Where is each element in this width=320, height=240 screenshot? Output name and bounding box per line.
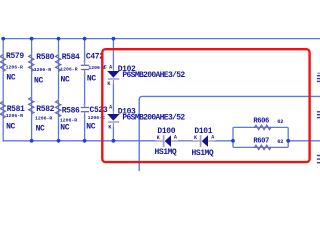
svg-text:C: C xyxy=(104,64,107,70)
svg-text:HS1MQ: HS1MQ xyxy=(192,149,214,158)
svg-text:NC: NC xyxy=(87,74,96,83)
svg-text:K: K xyxy=(157,135,160,141)
svg-text:R584: R584 xyxy=(62,53,80,62)
svg-text:NC: NC xyxy=(60,124,69,133)
svg-text:R581: R581 xyxy=(7,105,25,114)
svg-text:P6SMB200AHE3/52: P6SMB200AHE3/52 xyxy=(122,71,185,80)
svg-text:A: A xyxy=(109,64,112,70)
svg-text:K: K xyxy=(108,124,111,130)
svg-text:A: A xyxy=(211,135,214,141)
svg-text:1206-R: 1206-R xyxy=(6,113,23,119)
svg-text:NC: NC xyxy=(36,124,45,133)
svg-text:62: 62 xyxy=(277,139,283,145)
svg-text:D101: D101 xyxy=(194,127,212,136)
svg-text:K: K xyxy=(107,81,110,87)
svg-text:R606: R606 xyxy=(253,118,269,126)
svg-text:P6SMB200AHE3/52: P6SMB200AHE3/52 xyxy=(122,114,185,123)
svg-text:62: 62 xyxy=(277,119,283,125)
svg-text:R580: R580 xyxy=(36,53,54,62)
svg-text:HS1MQ: HS1MQ xyxy=(155,148,177,157)
svg-text:1206-R: 1206-R xyxy=(60,67,77,73)
svg-text:R582: R582 xyxy=(36,105,54,114)
svg-text:R579: R579 xyxy=(6,52,24,61)
svg-text:1206-R: 1206-R xyxy=(6,65,23,71)
svg-text:NC: NC xyxy=(34,77,43,86)
svg-text:NC: NC xyxy=(6,74,15,83)
svg-text:1206-R: 1206-R xyxy=(60,117,77,123)
svg-text:K: K xyxy=(194,135,197,141)
svg-text:A: A xyxy=(109,105,112,111)
svg-text:C523: C523 xyxy=(90,106,108,115)
svg-text:1206-R: 1206-R xyxy=(35,115,52,121)
svg-text:1206-R: 1206-R xyxy=(34,67,51,73)
svg-text:A: A xyxy=(174,135,177,141)
svg-text:NC: NC xyxy=(61,75,70,84)
svg-text:R607: R607 xyxy=(253,138,269,146)
svg-text:R586: R586 xyxy=(62,107,80,116)
svg-text:NC: NC xyxy=(86,122,95,131)
svg-text:NC: NC xyxy=(6,122,15,131)
